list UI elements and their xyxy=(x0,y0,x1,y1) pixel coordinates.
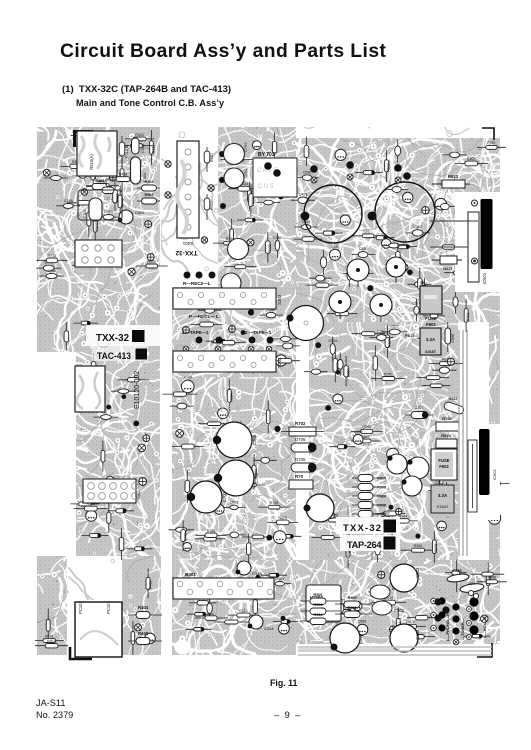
svg-text:TXX-32: TXX-32 xyxy=(96,332,129,344)
resistor R395 xyxy=(417,376,449,380)
label IC601 xyxy=(482,272,487,284)
PCB trace area mid-bot xyxy=(168,556,300,659)
svg-text:C U 5: C U 5 xyxy=(258,184,274,190)
svg-text:C602: C602 xyxy=(230,501,239,505)
svg-text:S303: S303 xyxy=(277,294,282,305)
resistor R623 xyxy=(432,174,470,188)
screw/test point xyxy=(389,626,396,633)
resistor R310 xyxy=(125,133,155,141)
diode D693 xyxy=(108,509,134,513)
screw below S401 xyxy=(201,237,207,243)
svg-text:R306: R306 xyxy=(313,593,322,597)
resistor R702 xyxy=(281,421,324,436)
capacitor C752 xyxy=(224,142,249,165)
label TXX-32 with marker xyxy=(96,330,145,344)
resistor R622 xyxy=(443,397,464,415)
resistor R364 xyxy=(227,379,233,413)
transistor Q641 xyxy=(387,448,399,460)
svg-text:C510: C510 xyxy=(104,210,113,214)
resistor R572 xyxy=(396,620,426,629)
screw/test point xyxy=(447,358,454,365)
capacitor C763 xyxy=(111,389,136,394)
svg-text:R303: R303 xyxy=(347,606,356,610)
resistor R468 xyxy=(106,173,140,182)
capacitor C404 xyxy=(223,532,246,538)
transistor X575 xyxy=(218,408,229,419)
screw/test point xyxy=(460,272,471,283)
svg-text:—TUNER—: —TUNER— xyxy=(460,618,465,640)
capacitor C505 xyxy=(445,570,467,575)
svg-text:R407: R407 xyxy=(467,157,476,161)
capacitor C604 xyxy=(273,336,297,341)
resistor R301 xyxy=(131,621,135,655)
svg-text:R629: R629 xyxy=(388,338,392,347)
control VR701 xyxy=(286,306,323,341)
svg-text:R515(B): R515(B) xyxy=(125,145,129,158)
svg-text:E I 0 I 5 0: E I 0 I 5 0 xyxy=(359,395,396,402)
svg-text:R501: R501 xyxy=(95,179,104,183)
resistor R728 xyxy=(400,635,435,639)
svg-text:S302: S302 xyxy=(277,357,282,368)
capacitor C312 xyxy=(36,261,61,271)
capacitor C450 xyxy=(370,330,394,340)
resistor R661 xyxy=(189,596,216,605)
svg-text:R597: R597 xyxy=(487,141,496,145)
bridge rectifier BY701 xyxy=(253,152,297,197)
solder junction xyxy=(281,616,286,621)
control VR754 xyxy=(370,294,392,322)
resistor R682 xyxy=(249,183,256,217)
resistor R391 xyxy=(71,502,100,506)
resistor R404 xyxy=(128,605,162,619)
label -TUNER- xyxy=(460,618,465,640)
svg-text:C314: C314 xyxy=(264,626,274,631)
capacitor C554 xyxy=(320,250,326,275)
resistor R503 xyxy=(61,160,93,168)
capacitor C577 xyxy=(382,325,407,335)
page number xyxy=(274,710,301,721)
solder junction xyxy=(389,505,394,510)
resistor R399 xyxy=(91,158,97,190)
svg-text:JA-S11: JA-S11 xyxy=(36,698,65,708)
resistor R401 xyxy=(204,147,214,172)
bottom trace stripes xyxy=(298,647,492,655)
resistor R777 xyxy=(118,378,149,382)
resistor R332 xyxy=(247,534,251,564)
resistor R528 xyxy=(253,591,257,623)
junction dots mid column xyxy=(219,151,226,209)
resistor R588 xyxy=(327,307,358,315)
svg-text:X749: X749 xyxy=(183,376,191,380)
resistor R745 xyxy=(270,358,300,363)
resistor R735 xyxy=(87,201,91,237)
transistor X606 xyxy=(407,457,429,479)
capacitor C403 xyxy=(291,193,315,204)
fuse F602 rating xyxy=(431,485,454,513)
svg-text:C348: C348 xyxy=(64,199,73,203)
white pad bottom-right xyxy=(473,640,485,652)
label L-PHONO-R xyxy=(445,613,450,641)
svg-text:C707: C707 xyxy=(222,491,227,502)
resistor R501 xyxy=(86,179,112,190)
aux terminals xyxy=(467,590,479,639)
svg-text:Fig. 11: Fig. 11 xyxy=(270,678,297,688)
connector bar CN602 xyxy=(479,429,490,495)
resistor R632 xyxy=(385,150,391,182)
tuner terminals xyxy=(452,603,459,644)
svg-text:E10120-002: E10120-002 xyxy=(134,371,141,409)
svg-text:C450: C450 xyxy=(377,330,386,334)
svg-text:3.3A: 3.3A xyxy=(426,337,436,342)
svg-text:R390: R390 xyxy=(384,372,393,376)
resistor R375 xyxy=(267,516,298,525)
doc number No. 2379 xyxy=(36,710,73,720)
resistor R492 xyxy=(46,609,50,643)
transistor C310 xyxy=(330,623,363,653)
svg-text:B301: B301 xyxy=(185,572,196,577)
solder junction xyxy=(325,405,331,411)
capacitor C751 xyxy=(224,168,248,188)
screw/test point xyxy=(396,508,402,514)
transistor X678 xyxy=(435,198,447,210)
diode D651 xyxy=(73,321,98,325)
capacitor C505 xyxy=(83,198,102,221)
label 2-TAPE-1 left xyxy=(182,330,209,335)
resistor R705 xyxy=(436,416,459,431)
svg-text:R623: R623 xyxy=(448,174,459,179)
capacitor C620 xyxy=(169,527,194,532)
svg-text:L—PHONO—R: L—PHONO—R xyxy=(445,613,450,641)
capacitor C588 xyxy=(433,203,456,209)
resistor R544 xyxy=(388,515,418,524)
resistor R652 xyxy=(344,356,350,387)
board corner mark top-left xyxy=(75,132,94,148)
svg-text:IC602: IC602 xyxy=(492,469,497,480)
capacitor C501 xyxy=(102,187,114,201)
resistor R618 xyxy=(74,502,109,511)
resistor R714 xyxy=(107,503,111,534)
resistor R403 xyxy=(128,631,162,645)
PCB trace area right-bot xyxy=(292,556,504,648)
label TAC-413 with marker xyxy=(97,349,147,363)
white pad bottom-left of B301 xyxy=(175,640,190,655)
capacitor C602 xyxy=(223,501,245,510)
PCB trace area right-top xyxy=(292,134,504,326)
label TXX-32 (rotated) xyxy=(175,249,197,256)
capacitor C469 xyxy=(268,577,291,586)
svg-text:R308: R308 xyxy=(313,603,322,607)
resistor R718 xyxy=(36,254,67,263)
transistor X749 xyxy=(181,376,194,393)
resistor R634 xyxy=(120,158,124,192)
connector body CN602 housing xyxy=(468,440,497,512)
svg-text:F601: F601 xyxy=(426,322,437,327)
resistor R620 xyxy=(352,493,386,500)
svg-text:R507: R507 xyxy=(95,222,99,231)
resistor R588 xyxy=(477,576,507,584)
solder junction xyxy=(214,362,220,368)
capacitor C775 xyxy=(309,275,332,281)
transistor X698 xyxy=(273,531,286,544)
capacitor C320 xyxy=(351,247,375,258)
svg-text:R375: R375 xyxy=(278,516,287,520)
transistor Q708 xyxy=(333,394,343,404)
label P-REC1-L xyxy=(189,314,219,319)
junction row R-REC2-L xyxy=(184,272,216,279)
solder junction xyxy=(491,445,496,450)
resistor R360 xyxy=(242,535,274,539)
resistor R523 xyxy=(91,353,96,381)
diode D707 xyxy=(405,406,434,419)
svg-text:2 —TAPE—1: 2 —TAPE—1 xyxy=(182,330,209,335)
PCB trace area left-mid xyxy=(72,348,164,560)
resistor R515(B) xyxy=(119,136,129,168)
PCB trace area top-strip xyxy=(294,123,500,138)
screw right of S401 a xyxy=(208,185,214,191)
svg-text:R503: R503 xyxy=(144,193,153,197)
svg-text:C505: C505 xyxy=(83,209,87,218)
capacitor C665 xyxy=(294,220,318,229)
solder junction xyxy=(415,534,420,539)
svg-text:R620: R620 xyxy=(377,495,386,499)
diode D371 xyxy=(187,613,214,617)
screw bottom CN701 xyxy=(472,258,478,264)
resistor R558 xyxy=(194,616,227,621)
transistor Q352 xyxy=(437,521,447,531)
svg-text:R515(A): R515(A) xyxy=(89,154,94,170)
diode D561 xyxy=(237,218,263,222)
svg-text:C303: C303 xyxy=(415,567,420,578)
resistor R624 xyxy=(371,596,406,605)
resistor R666 xyxy=(214,620,248,624)
svg-text:R591: R591 xyxy=(45,635,54,639)
screw/test point xyxy=(136,442,147,453)
control VR751 xyxy=(347,259,369,287)
resistor R615 xyxy=(418,268,424,300)
svg-text:R403: R403 xyxy=(138,631,149,636)
svg-text:R622: R622 xyxy=(448,397,457,401)
capacitor C301 xyxy=(370,585,403,599)
resistor R752 xyxy=(311,535,344,539)
label TXX-32 with marker (right) xyxy=(343,520,396,534)
diode D705 xyxy=(291,457,316,472)
resistor R381 xyxy=(113,181,120,211)
screw/test point xyxy=(378,571,385,578)
solder junction xyxy=(241,330,246,335)
resistor R736 xyxy=(198,422,229,426)
board code E10120-002 xyxy=(134,371,141,409)
capacitor C596 xyxy=(295,170,319,180)
capacitor C633 xyxy=(198,303,222,314)
transistor X605 xyxy=(387,454,407,474)
capacitor C302 xyxy=(432,363,456,374)
svg-text:R468: R468 xyxy=(119,173,128,177)
label TAP-264 with marker xyxy=(347,537,396,551)
svg-text:R682: R682 xyxy=(251,197,255,206)
capacitor C373 xyxy=(395,139,401,163)
svg-text:R404: R404 xyxy=(138,605,149,610)
svg-text:C302: C302 xyxy=(394,608,405,613)
capacitor C365 xyxy=(443,152,467,157)
svg-text:R305: R305 xyxy=(347,596,356,600)
transistor X669 xyxy=(252,141,261,150)
connector zone white lower xyxy=(458,424,500,520)
resistor R699 xyxy=(266,164,295,173)
capacitor C482 xyxy=(405,225,430,236)
diode D716 xyxy=(390,245,417,249)
svg-text:R439: R439 xyxy=(268,244,272,253)
screw/test point xyxy=(422,206,429,214)
diode D488 xyxy=(333,610,359,614)
resistor R391 xyxy=(351,425,383,433)
resistor R302 xyxy=(352,234,384,238)
svg-text:R729: R729 xyxy=(336,362,340,371)
resistor R441 xyxy=(118,186,124,217)
fuse holder F602 xyxy=(431,449,457,480)
svg-text:C608: C608 xyxy=(451,334,455,343)
resistor R389 xyxy=(396,243,401,274)
PCB trace area left-bot-b xyxy=(118,552,165,659)
transistor C313 xyxy=(236,561,263,576)
resistor R606 xyxy=(266,400,270,433)
svg-text:S15AT: S15AT xyxy=(437,504,449,509)
screw/test point xyxy=(42,168,52,178)
transformer PC101 xyxy=(75,601,122,657)
svg-text:No. 2379: No. 2379 xyxy=(36,710,73,720)
PCB trace area edge-mid xyxy=(485,318,504,564)
capacitor C504 xyxy=(131,157,148,184)
screw/test point xyxy=(147,254,154,261)
capacitor C753 xyxy=(228,239,249,260)
capacitor C304 xyxy=(390,624,420,652)
PCB trace area s401-zone xyxy=(157,123,222,291)
switch S302 xyxy=(173,351,282,372)
doc number JA-S11 xyxy=(36,698,65,708)
PCB trace area xfmr-zone xyxy=(63,556,126,604)
capacitor C502 xyxy=(373,512,398,522)
capacitor C348 xyxy=(56,199,80,209)
svg-text:L—AUX—R: L—AUX—R xyxy=(482,616,487,638)
label underlay xyxy=(86,325,160,361)
svg-text:R708: R708 xyxy=(270,501,279,505)
svg-text:P —REC1— L: P —REC1— L xyxy=(189,314,219,319)
transformer T401 box xyxy=(75,366,105,412)
svg-text:R702: R702 xyxy=(295,421,306,426)
transistor C506 xyxy=(118,210,144,224)
capacitor C648 xyxy=(276,343,300,349)
solder junction xyxy=(227,353,233,359)
resistor R334 xyxy=(228,182,259,191)
IC301 xyxy=(306,585,341,622)
resistor R326 xyxy=(196,529,227,538)
solder junction xyxy=(248,309,254,315)
solder junction xyxy=(367,285,373,291)
resistor R754 xyxy=(294,237,323,242)
svg-text:R625: R625 xyxy=(377,513,386,517)
connector zone white xyxy=(455,192,500,292)
resistor row R305 xyxy=(335,596,372,608)
resistor R522 xyxy=(351,435,380,443)
control VR752 xyxy=(386,257,406,283)
transistor Q366 xyxy=(279,623,290,634)
svg-text:R610: R610 xyxy=(377,477,386,481)
svg-text:IC601: IC601 xyxy=(482,272,487,284)
svg-text:Q661: Q661 xyxy=(358,620,367,624)
capacitor C652 xyxy=(345,262,354,287)
svg-text:TXX-32: TXX-32 xyxy=(343,522,381,533)
resistor row R314 xyxy=(300,613,340,625)
screw/test point xyxy=(327,511,334,518)
solder junction xyxy=(133,421,139,427)
screw/test point xyxy=(400,263,410,273)
ghost code EI0ICI3 vertical xyxy=(146,371,152,399)
relay RL502 outline xyxy=(78,190,122,220)
capacitor C598 xyxy=(259,308,283,318)
resistor R374 xyxy=(119,528,124,559)
svg-text:D707: D707 xyxy=(414,406,423,410)
PCB trace area right-mid xyxy=(305,318,462,564)
capacitor C548 xyxy=(257,200,280,205)
solder junction xyxy=(255,575,260,580)
diode D736 xyxy=(206,339,234,343)
capacitor C614 xyxy=(412,299,421,322)
svg-text:R439: R439 xyxy=(148,581,152,590)
capacitor C707 xyxy=(187,481,227,513)
label S401 (rotated) xyxy=(182,241,193,246)
svg-text:FUSE: FUSE xyxy=(425,316,437,321)
transistor Q699 xyxy=(488,507,500,524)
control VR753 xyxy=(329,291,351,319)
resistor R439 xyxy=(265,232,272,263)
diode D640 xyxy=(81,534,108,538)
svg-text:R364: R364 xyxy=(229,393,233,402)
svg-text:R608: R608 xyxy=(377,486,386,490)
electrolytic capacitor C707 xyxy=(301,185,363,243)
svg-text:R629: R629 xyxy=(434,544,438,553)
svg-text:R314: R314 xyxy=(313,613,323,617)
resistor R621 xyxy=(432,256,462,271)
resistor R407 xyxy=(454,157,488,166)
resistor R726 xyxy=(318,514,349,522)
capacitor C334 xyxy=(422,278,428,303)
svg-text:R768: R768 xyxy=(183,533,187,542)
svg-text:R310: R310 xyxy=(135,133,144,137)
diode D762 xyxy=(127,547,153,551)
screw/test point xyxy=(479,613,489,623)
capacitor C706 xyxy=(213,422,257,458)
svg-text:C325: C325 xyxy=(452,568,462,573)
svg-text:TAP-264: TAP-264 xyxy=(347,540,382,550)
resistor R415 xyxy=(86,179,119,188)
diode D748 xyxy=(315,231,343,235)
resistor R312 xyxy=(150,130,156,165)
svg-text:C796: C796 xyxy=(273,236,282,240)
resistor R314 xyxy=(228,609,260,617)
resistor X608 xyxy=(352,502,386,509)
figure caption xyxy=(270,678,297,688)
screw/test point xyxy=(246,238,256,248)
svg-text:(1) TXX-32C (TAP-264B and TAC: (1) TXX-32C (TAP-264B and TAC-413) xyxy=(62,84,231,95)
resistor R312 xyxy=(479,481,509,486)
svg-text:C482: C482 xyxy=(413,225,422,229)
resistor R340 xyxy=(195,532,226,541)
svg-text:C310: C310 xyxy=(358,634,363,644)
solder junction xyxy=(266,535,272,541)
screw top CN701 xyxy=(472,200,478,206)
capacitor C510 xyxy=(96,210,121,220)
resistor R629 xyxy=(432,531,438,563)
PCB trace area left-top xyxy=(33,123,164,356)
